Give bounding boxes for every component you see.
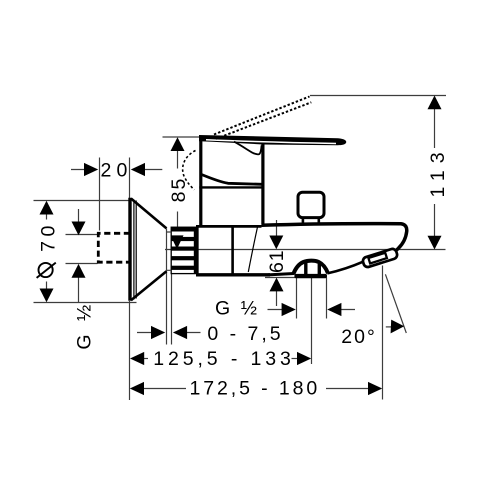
svg-text:0 - 7,5: 0 - 7,5 <box>207 323 283 345</box>
svg-text:125,5 - 133: 125,5 - 133 <box>153 348 295 370</box>
svg-text:G ½: G ½ <box>74 301 96 350</box>
svg-text:172,5 - 180: 172,5 - 180 <box>190 377 321 399</box>
svg-text:G ½: G ½ <box>215 298 260 320</box>
svg-text:113: 113 <box>427 145 449 197</box>
svg-text:61: 61 <box>266 250 288 273</box>
svg-text:20: 20 <box>100 160 132 182</box>
svg-text:20°: 20° <box>341 326 377 348</box>
svg-text:70: 70 <box>38 221 60 252</box>
